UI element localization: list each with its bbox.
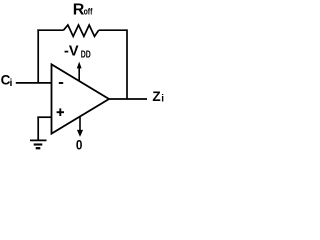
wire feedback top right lead	[99, 29, 127, 31]
svg-text:0: 0	[76, 136, 83, 152]
arrow zero output current (pointing down from op-amp bottom edge)	[77, 117, 83, 137]
svg-text:i: i	[10, 77, 13, 89]
svg-text:DD: DD	[81, 49, 91, 60]
op-amp non-inverting input plus sign	[57, 108, 64, 116]
wire feedback top left lead	[37, 29, 63, 31]
wire feedback left vertical	[37, 29, 39, 83]
wire feedback right vertical	[126, 29, 128, 99]
op-amp inverting input minus sign	[59, 82, 63, 84]
wire non-inverting input	[37, 116, 51, 118]
op-amp U1 triangle	[52, 64, 110, 133]
wire output to Zi	[109, 98, 147, 100]
wire inverting input from Ci	[16, 82, 52, 84]
wire ground stub	[37, 117, 39, 140]
svg-text:off: off	[84, 7, 93, 18]
resistor Roff zigzag	[64, 25, 99, 36]
svg-text:-V: -V	[64, 44, 79, 60]
svg-text:Z: Z	[152, 89, 160, 104]
arrow -VDD supply (pointing up from op-amp top edge)	[77, 62, 82, 82]
svg-text:i: i	[161, 94, 164, 105]
ground	[30, 140, 47, 148]
